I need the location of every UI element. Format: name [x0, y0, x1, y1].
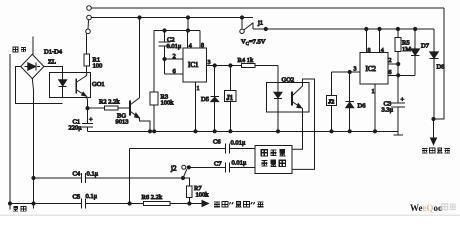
svg-text:0.01μ: 0.01μ: [231, 140, 246, 147]
svg-text:1: 1: [372, 89, 375, 95]
junction: R7 bottom: [188, 202, 191, 205]
switch J1 blade: [244, 23, 253, 30]
svg-text:R6 2.2k: R6 2.2k: [142, 194, 163, 201]
svg-text:3.3μ: 3.3μ: [382, 107, 394, 114]
capacitor C1 (electrolytic): [82, 124, 93, 132]
svg-text:=7.5V: =7.5V: [249, 39, 266, 46]
junction: pin8 on rail: [365, 27, 368, 30]
svg-text:D8: D8: [437, 64, 445, 71]
junction: BG emitter on ground bus: [148, 130, 151, 133]
diode D5: [210, 66, 219, 132]
junction: C2 to pin2 wire: [163, 57, 166, 60]
svg-text:C5: C5: [73, 194, 81, 201]
IC2 pin8 riser: [365, 29, 367, 53]
wire: bridge bottom vertex down to telephone: [32, 79, 33, 209]
junction: D6 on ground bus: [348, 130, 351, 133]
wire: bridge right vertex to GO1 LED anode: [44, 67, 63, 73]
junction: phone wire at bottom line: [32, 202, 35, 205]
svg-text:C4: C4: [73, 171, 81, 178]
svg-text:D6: D6: [358, 103, 367, 110]
svg-text:IC2: IC2: [366, 65, 377, 73]
svg-text:2: 2: [389, 58, 392, 64]
junction on rail (node): [264, 27, 267, 30]
capacitor C3 (electrolytic): [391, 103, 405, 131]
svg-text:IC1: IC1: [188, 61, 199, 69]
junction: emitter/R2/C1 node: [86, 107, 89, 110]
wire: IC1 pins 4/8 supply wire: [154, 30, 200, 32]
node: line terminal 2 (open circle): [87, 15, 92, 20]
svg-text:C7: C7: [214, 161, 222, 168]
diode D6: [345, 72, 354, 131]
svg-text:9013: 9013: [116, 119, 129, 126]
wire: terminal2 to terminal3 link: [87, 20, 90, 29]
resistor R2: [88, 107, 105, 109]
transistor BG 9013: [129, 100, 131, 115]
svg-text:D7: D7: [421, 43, 430, 50]
junction: J2 relay on ground bus: [330, 130, 333, 133]
switch j2 to R7 link: [183, 178, 189, 186]
IC2 pin1 to ground: [374, 84, 376, 131]
wire: IC2 pin3 line: [332, 71, 361, 73]
switch J1 throw contact tick: [252, 23, 254, 30]
capacitor C2: [159, 31, 171, 75]
GO1 LED: [62, 72, 64, 80]
switch J1 pole drop: [241, 18, 243, 29]
junction: IC2 pin1 on ground bus: [373, 130, 376, 133]
resistor R1: [86, 34, 88, 54]
junction: C4 tap on phone wire: [32, 176, 35, 179]
svg-text:6: 6: [389, 70, 392, 76]
svg-text:0.1μ: 0.1μ: [87, 171, 99, 178]
svg-text:1: 1: [197, 86, 200, 92]
svg-text:0.1μ: 0.1μ: [86, 193, 98, 200]
svg-text:D5: D5: [201, 96, 209, 103]
arrow to recording power: [433, 119, 435, 138]
svg-text:100k: 100k: [161, 100, 175, 107]
capacitor C5 and pickup wire: [10, 199, 143, 209]
svg-text:3: 3: [354, 67, 357, 73]
wire: line conductor B down to telephone: [9, 54, 11, 204]
voice announcing system box 语音报时系统: [255, 145, 292, 173]
junction on second bus to BG collector: [138, 16, 141, 19]
ground bus (bottom common rail): [88, 130, 399, 132]
wire: BG collector to second bus: [139, 18, 141, 98]
svg-text:4: 4: [381, 48, 384, 54]
wire: second bus from terminal 2 to switch J1: [91, 17, 253, 19]
svg-text:+: +: [89, 117, 93, 124]
svg-text:220μ: 220μ: [69, 125, 83, 132]
svg-text:j2: j2: [170, 165, 177, 173]
diode D8: [433, 29, 435, 52]
IC2 pin2 wire: [388, 63, 398, 65]
switch j2 pole contact (open circle): [182, 165, 186, 169]
junction: GO2 LED on ground bus: [276, 130, 279, 133]
optocoupler GO2 box: [267, 83, 309, 113]
wire: IC1 pin2: [165, 58, 184, 60]
junction: R5 on rail: [396, 27, 399, 30]
label 线路 (phone line): [13, 47, 26, 52]
wire: GO1 emitter node: [86, 97, 89, 123]
svg-text:8: 8: [201, 43, 204, 49]
wire: IC1 power riser from second bus: [187, 18, 189, 31]
junction: C4 wire at switch j2: [181, 176, 184, 179]
junction on second bus to IC1 power: [186, 16, 189, 19]
svg-text:ZL: ZL: [48, 59, 56, 66]
faint page bottom edge: [0, 215, 460, 216]
wire: top supply bus from line terminal to far right: [92, 7, 445, 9]
junction: C6 branch at bottom wire: [128, 202, 131, 205]
junction: line B at bottom wire: [8, 202, 11, 205]
resistor R4: [242, 64, 256, 68]
junction: pin2 node: [397, 62, 400, 65]
svg-text:0.01μ: 0.01μ: [167, 43, 182, 50]
arrow to record head: [202, 201, 209, 207]
junction: D5 on ground bus: [213, 130, 216, 133]
svg-text:J2: J2: [328, 99, 334, 106]
junction: recording supply node: [432, 117, 435, 120]
optocoupler GO1 box: [50, 72, 91, 97]
GO1 phototransistor: [75, 79, 77, 94]
bridge internal diode: [25, 62, 41, 70]
svg-text:8: 8: [368, 48, 371, 54]
label 录音电源 (recording power): [422, 148, 450, 153]
resistor R6: [143, 201, 169, 205]
junction: pin6 node: [397, 74, 400, 77]
svg-text:2: 2: [173, 53, 176, 60]
svg-text:WeeQoo: WeeQoo: [410, 203, 443, 213]
wire: +7.5V rail after switch J1: [253, 28, 434, 30]
svg-text:GO2: GO2: [282, 77, 295, 84]
svg-text:4: 4: [189, 43, 192, 49]
node: line terminal 1 (open circle): [87, 6, 92, 11]
resistor R7: [187, 186, 193, 198]
relay coil J2: [331, 72, 333, 131]
junction: C2 top on supply wire: [163, 29, 166, 32]
junction: J1 relay tap: [229, 64, 232, 67]
IC1 pin 8 riser: [199, 31, 201, 49]
relay coil J1: [229, 66, 231, 132]
junction: pin4 on rail: [378, 27, 381, 30]
junction: pin4/8 riser node: [186, 29, 189, 32]
capacitor C7: [189, 162, 255, 172]
label 电话 (telephone): [13, 206, 26, 211]
IC2 box: [360, 53, 388, 84]
svg-text:GO1: GO1: [92, 81, 105, 88]
wire: right edge drop from top bus down to recording supply node: [434, 8, 445, 119]
IC1 pin1 wire to ground: [195, 82, 197, 131]
junction: j2 throw on C7 wire: [187, 166, 190, 169]
junction: R3 on ground bus: [153, 130, 156, 133]
resistor R3 riser: [153, 31, 155, 93]
IC1 pin 4 riser: [187, 31, 189, 49]
wire: C6 branch down to pickup wire: [129, 149, 131, 204]
wire: bridge left vertex to GO1 LED return loop: [16, 67, 63, 104]
node: line terminal 3 (open circle): [86, 29, 91, 34]
bridge rectifier D1-D4 ZL (diamond): [21, 54, 44, 78]
wire: line stub A to bridge top vertex: [32, 36, 34, 54]
wire: IC1 pin6: [165, 73, 184, 75]
switch j2 blade: [183, 169, 187, 178]
GO2 phototransistor: [291, 92, 293, 106]
label 录音"放大"头: [214, 202, 263, 208]
svg-text:1M: 1M: [402, 46, 411, 53]
IC2 pin4 riser: [379, 29, 381, 53]
svg-text:J1: J1: [226, 95, 233, 102]
IC1 pin3 wire: [207, 65, 242, 67]
junction: D5 tap: [213, 64, 216, 67]
junction: J1 relay on ground bus: [229, 130, 232, 133]
GO2 LED: [277, 66, 279, 93]
junction on second bus to switch J1 pole: [240, 16, 243, 19]
resistor R5: [397, 29, 399, 37]
svg-text:100k: 100k: [196, 192, 210, 199]
switch J1 pole contact (open circle): [240, 29, 244, 33]
svg-text:0.01μ: 0.01μ: [232, 160, 247, 167]
diode D7: [414, 29, 416, 49]
svg-text:R2 2.2k: R2 2.2k: [99, 99, 120, 106]
capacitor C6: [130, 144, 256, 154]
svg-text:100: 100: [93, 63, 103, 70]
svg-text:C6: C6: [213, 139, 221, 146]
junction: D6 tap: [348, 70, 351, 73]
svg-text:+: +: [401, 97, 405, 104]
svg-text:j1: j1: [257, 20, 263, 27]
svg-text:R4 1k: R4 1k: [238, 57, 254, 64]
svg-text:D1-D4: D1-D4: [44, 49, 63, 56]
ground symbol: [394, 131, 403, 135]
capacitor C4: [34, 173, 184, 183]
junction: IC1 pin1 on ground bus: [194, 130, 197, 133]
wire: line B tick below bottom wire: [9, 204, 11, 210]
svg-text:3: 3: [208, 60, 211, 66]
IC2 pin6 wire: [388, 74, 415, 76]
IC1 box: [183, 48, 207, 82]
